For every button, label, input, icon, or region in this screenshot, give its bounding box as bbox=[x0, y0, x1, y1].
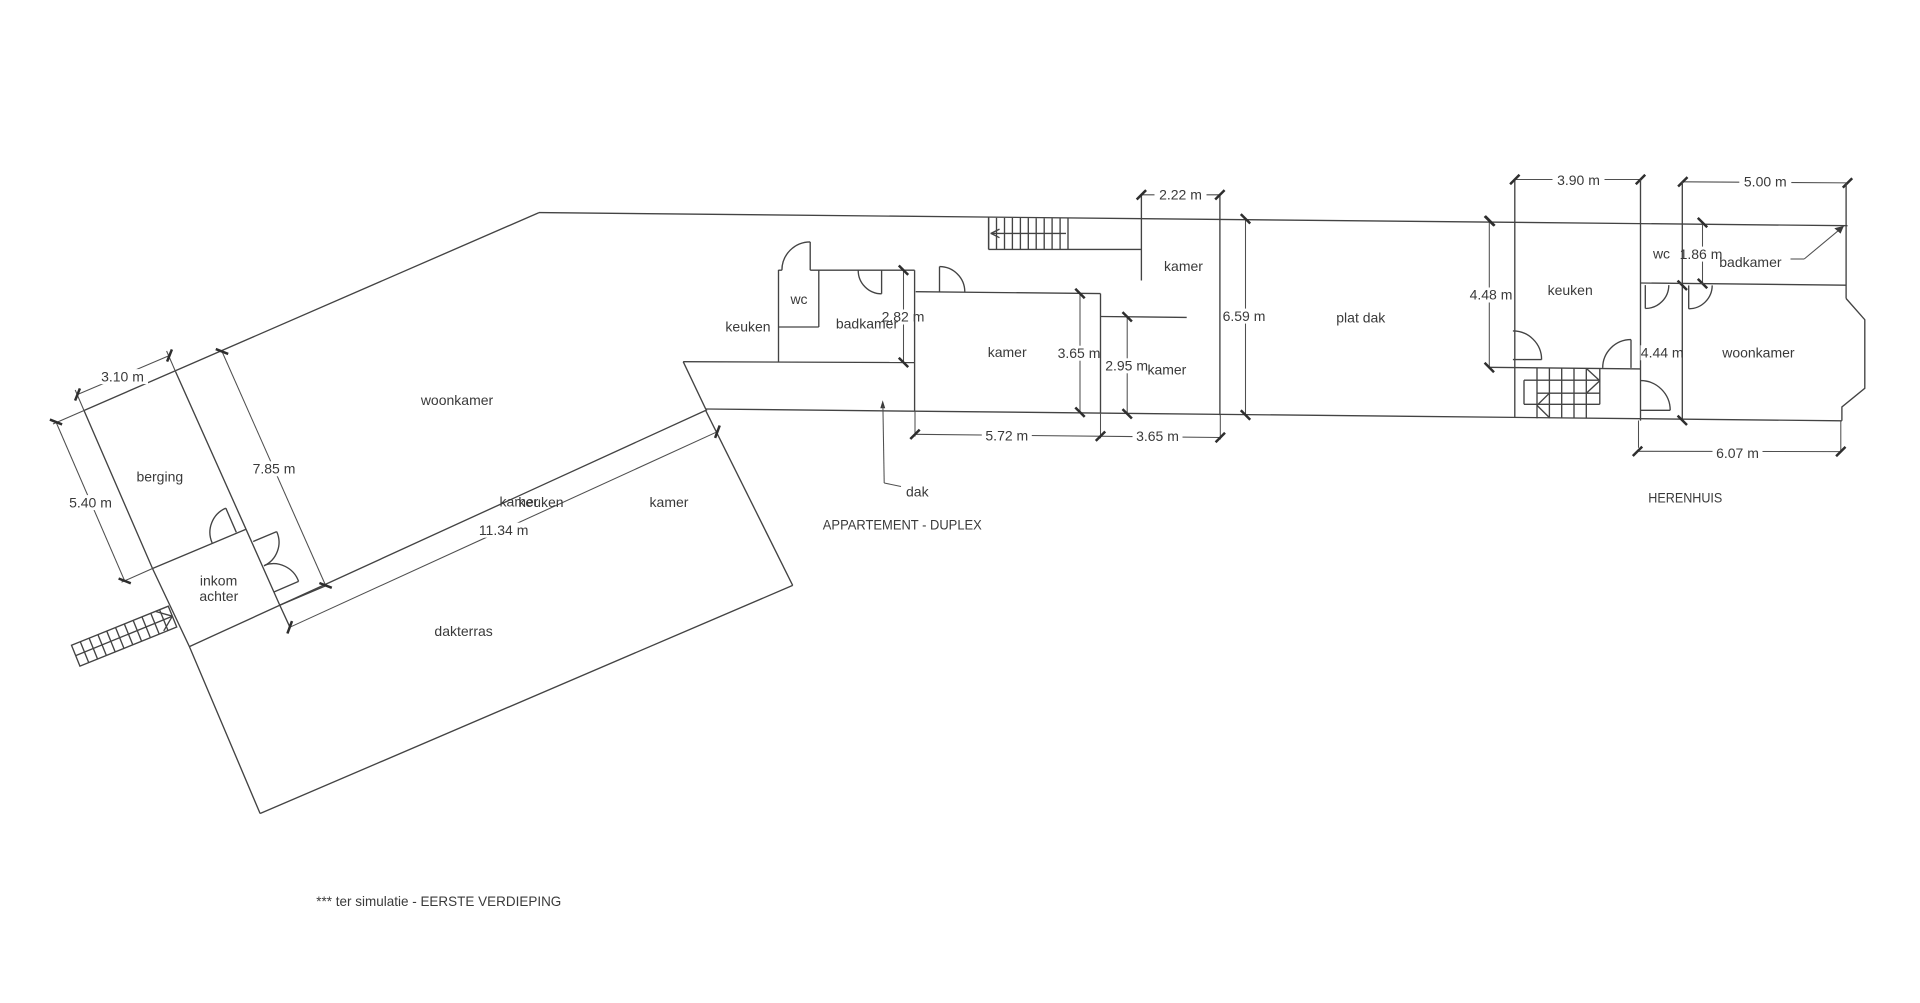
svg-text:kamer: kamer bbox=[1147, 362, 1186, 378]
wall berging bottom inkom top bbox=[153, 529, 247, 568]
svg-text:5.72 m: 5.72 m bbox=[985, 427, 1028, 443]
dim 11.34 bbox=[290, 432, 718, 628]
dim 2.95 bbox=[1126, 317, 1128, 414]
dim 5.00 bbox=[1683, 182, 1848, 183]
svg-text:kamer: kamer bbox=[1164, 258, 1203, 274]
door inkom A bbox=[253, 532, 277, 542]
svg-text:wc: wc bbox=[1652, 245, 1670, 261]
svg-text:keuken: keuken bbox=[518, 494, 563, 510]
svg-text:inkom: inkom bbox=[200, 572, 237, 588]
wall herenhuis keuken bottom bbox=[1488, 367, 1641, 369]
svg-text:2.22 m: 2.22 m bbox=[1159, 186, 1202, 202]
svg-text:badkamer: badkamer bbox=[836, 316, 899, 332]
svg-text:keuken: keuken bbox=[1548, 282, 1593, 298]
svg-text:3.65 m: 3.65 m bbox=[1058, 345, 1101, 361]
door berging bbox=[226, 508, 237, 532]
door hall bbox=[1641, 409, 1671, 411]
svg-text:2.95 m: 2.95 m bbox=[1105, 358, 1148, 374]
svg-text:kamer: kamer bbox=[650, 494, 689, 510]
svg-text:4.44 m: 4.44 m bbox=[1641, 345, 1684, 361]
door inkom B bbox=[274, 581, 299, 592]
dim 6.07 bbox=[1638, 421, 1640, 448]
dims 5.72 and 3.65 bbox=[914, 412, 916, 437]
stairs duplex bbox=[988, 217, 990, 249]
svg-text:5.00 m: 5.00 m bbox=[1744, 174, 1787, 190]
wall wc badkamer bottom bbox=[1641, 283, 1847, 285]
door kamer bbox=[939, 267, 941, 292]
tick 4.48 top bbox=[1485, 216, 1494, 225]
wall outer diagonal top-left bbox=[84, 213, 539, 411]
dim 5.40 bbox=[53, 411, 84, 425]
wall bottom line bbox=[706, 409, 1842, 421]
door badkamer herenhuis bbox=[1688, 285, 1690, 308]
wall kamer2 top bbox=[1101, 316, 1187, 319]
wall herenhuis keuken left bbox=[1514, 180, 1516, 418]
svg-text:1.86 m: 1.86 m bbox=[1680, 246, 1723, 262]
wall overlap segment dakterras top bbox=[280, 586, 326, 605]
svg-text:3.90 m: 3.90 m bbox=[1557, 172, 1600, 188]
wall dakterras right bbox=[706, 411, 793, 586]
door duplex badkamer bbox=[881, 270, 883, 294]
svg-text:plat dak: plat dak bbox=[1336, 310, 1386, 326]
wall dak left diagonal bbox=[683, 362, 706, 410]
wall kamer right bbox=[1100, 294, 1102, 414]
svg-text:keuken: keuken bbox=[725, 319, 770, 335]
door herenhuis keuken A bbox=[1513, 359, 1542, 361]
door wc herenhuis bbox=[1644, 285, 1646, 308]
wall kamer3 right bbox=[1219, 195, 1221, 415]
wall badkamer right bbox=[1845, 183, 1847, 299]
wall inkom right with extension bbox=[246, 529, 290, 628]
svg-text:badkamer: badkamer bbox=[1719, 254, 1782, 270]
wall woonkamer bay bbox=[1842, 299, 1865, 421]
svg-text:woonkamer: woonkamer bbox=[1721, 344, 1795, 360]
svg-text:6.59 m: 6.59 m bbox=[1223, 308, 1266, 324]
wall wc right dim 4.44 bbox=[1681, 182, 1683, 421]
wall kamer3 left bbox=[1140, 195, 1142, 281]
wall berging right bbox=[176, 372, 247, 530]
wall duplex outer right bbox=[914, 270, 916, 411]
svg-text:*** ter simulatie - EERSTE VER: *** ter simulatie - EERSTE VERDIEPING bbox=[316, 893, 561, 909]
wall berging-left inkom-left dakterras-left bbox=[84, 411, 260, 814]
door duplex keuken bbox=[809, 242, 811, 270]
dim 2.22 bbox=[1141, 194, 1220, 196]
svg-text:4.48 m: 4.48 m bbox=[1470, 287, 1513, 303]
svg-text:wc: wc bbox=[789, 291, 807, 307]
svg-text:3.65 m: 3.65 m bbox=[1136, 428, 1179, 444]
dim 7.85 bbox=[222, 352, 326, 586]
svg-text:kamer: kamer bbox=[988, 344, 1027, 360]
wall top line bbox=[539, 213, 1848, 226]
door herenhuis keuken B bbox=[1630, 340, 1632, 368]
wall badkamer right dim 2.82 bbox=[903, 270, 905, 362]
wall duplex keuken left bbox=[778, 270, 780, 362]
dim 1.86 bbox=[1702, 223, 1704, 284]
svg-text:3.10 m: 3.10 m bbox=[101, 368, 144, 384]
dim 3.10 bbox=[75, 390, 84, 411]
svg-text:7.85 m: 7.85 m bbox=[253, 461, 296, 477]
svg-text:woonkamer: woonkamer bbox=[420, 392, 494, 408]
stairs herenhuis bbox=[1536, 368, 1538, 418]
dim 6.59 bbox=[1245, 219, 1247, 415]
svg-text:dak: dak bbox=[906, 483, 930, 499]
svg-text:11.34 m: 11.34 m bbox=[479, 522, 529, 538]
dak leader bbox=[880, 400, 885, 408]
wall inkom bottom dakterras top woonkamer bottom bbox=[189, 410, 707, 647]
outdoor stairs bbox=[72, 606, 177, 666]
svg-text:APPARTEMENT - DUPLEX: APPARTEMENT - DUPLEX bbox=[823, 516, 983, 532]
svg-text:HERENHUIS: HERENHUIS bbox=[1648, 489, 1722, 505]
wall herenhuis hall left bbox=[1640, 180, 1642, 421]
wall dakterras bottom bbox=[260, 585, 793, 813]
svg-text:6.07 m: 6.07 m bbox=[1716, 445, 1759, 461]
wall duplex top bbox=[779, 269, 782, 271]
wall duplex bottom bbox=[683, 361, 914, 364]
dim 4.48 bbox=[1488, 221, 1490, 368]
svg-text:achter: achter bbox=[199, 588, 238, 604]
dim 3.65 vertical bbox=[1079, 294, 1081, 413]
badkamer leader bbox=[1791, 258, 1805, 260]
svg-text:5.40 m: 5.40 m bbox=[69, 494, 112, 510]
wc box duplex bbox=[818, 270, 820, 327]
svg-text:berging: berging bbox=[136, 468, 183, 484]
svg-text:dakterras: dakterras bbox=[434, 623, 492, 639]
dim 3.90 bbox=[1515, 179, 1641, 181]
wall kamer top bbox=[916, 292, 1101, 294]
